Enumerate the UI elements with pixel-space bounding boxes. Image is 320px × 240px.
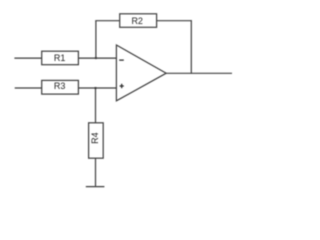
svg-text:R2: R2 — [131, 16, 143, 26]
svg-text:R4: R4 — [90, 132, 100, 144]
svg-text:R1: R1 — [54, 53, 66, 63]
svg-text:R3: R3 — [54, 81, 66, 91]
